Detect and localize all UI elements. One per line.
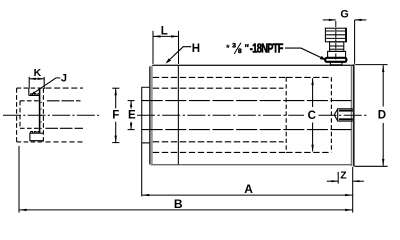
fitting flange (dark): [325, 58, 346, 62]
tapped hole outline: [337, 109, 353, 121]
svg-text:8: 8: [238, 48, 242, 55]
L arrowheads: [153, 35, 160, 37]
Z dim line right: [353, 180, 364, 182]
F arrowheads: [115, 88, 117, 95]
svg-text:J: J: [61, 72, 67, 84]
C dim line lower: [312, 123, 314, 152]
B dim line: [19, 209, 352, 211]
fitting collar: [328, 51, 346, 57]
inner hidden rect left: [19, 101, 21, 129]
E arrowheads: [130, 101, 132, 107]
E dim line lower: [130, 122, 132, 130]
L extension line left: [152, 31, 154, 64]
A arrowheads: [142, 194, 149, 196]
piston hidden rect left: [285, 77, 287, 152]
rod phantom line top: [142, 100, 353, 102]
A extension left (boss face extended): [141, 144, 143, 197]
centerline main right segment: [319, 114, 369, 116]
F dim line upper: [115, 88, 117, 108]
top notch: [29, 88, 39, 95]
boss on left face: [142, 87, 151, 143]
F tick top: [112, 87, 119, 89]
fitting top block thread lines: [326, 30, 346, 32]
between-views hidden projection lines: [3, 88, 99, 142]
outer hidden rect bottom seg: [17, 141, 44, 143]
G dim line left part: [323, 19, 336, 21]
svg-text:*: *: [226, 43, 230, 54]
rod phantom line bottom: [142, 129, 353, 131]
E dim line upper: [130, 101, 132, 109]
right face gray line: [350, 65, 352, 166]
right shared extension line: [352, 167, 354, 213]
G extension long (right face): [354, 20, 356, 64]
svg-text:E: E: [128, 110, 136, 122]
fitting top threaded block: [325, 28, 346, 42]
svg-text:Z: Z: [340, 169, 347, 181]
wire top edge of body: [152, 64, 353, 66]
svg-text:K: K: [34, 67, 42, 79]
wire bottom edge of body (gray): [151, 164, 352, 166]
leader arrowhead: [320, 56, 327, 60]
Z dim line left: [327, 180, 338, 182]
K dim line: [29, 78, 44, 80]
C dim line upper: [312, 78, 314, 107]
bottom step: [30, 133, 44, 141]
E tick bottom: [128, 129, 135, 131]
top notch thread teeth: [31, 94, 39, 96]
svg-text:G: G: [340, 9, 348, 21]
svg-text:H: H: [192, 43, 200, 55]
F dim line lower: [115, 122, 117, 143]
piston hidden rect bottom: [286, 151, 331, 153]
projection line F top: [46, 87, 84, 89]
drill cone: [334, 109, 337, 121]
L dimension line: [153, 35, 179, 37]
inner hidden rect top: [20, 100, 41, 102]
piston hidden rect right: [330, 77, 332, 152]
svg-text:L: L: [161, 25, 168, 37]
B arrowheads: [19, 209, 26, 211]
outer hidden rect right: [42, 88, 44, 142]
Z extension (hole bottom): [337, 172, 339, 184]
svg-text:3: 3: [232, 42, 236, 49]
centerline main left segment: [137, 114, 304, 116]
C arrowheads: [311, 78, 313, 85]
right face dark plate line: [353, 64, 355, 166]
fitting neck: [330, 62, 342, 65]
L extension line right: [178, 31, 180, 64]
K extension left: [28, 77, 30, 89]
svg-text:-18NPTF: -18NPTF: [250, 42, 284, 56]
K extension right: [43, 77, 45, 89]
svg-text:B: B: [174, 197, 183, 211]
G arrowheads: [329, 19, 336, 21]
inch quote: [246, 44, 248, 47]
hidden line lower (counterbore): [153, 141, 284, 143]
K arrowheads: [29, 78, 36, 80]
svg-text:A: A: [244, 182, 253, 196]
thread tick marks: [41, 103, 42, 129]
svg-text:D: D: [378, 110, 386, 122]
left face plate (gray band): [150, 66, 153, 165]
E tick top: [128, 100, 135, 102]
hidden bore line top: [153, 76, 286, 78]
A dim line: [142, 194, 353, 196]
thread thick bar top: [339, 110, 353, 112]
projection line E bottom: [46, 127, 84, 129]
F tick bottom: [112, 142, 119, 144]
centerline small part: [3, 114, 99, 116]
D extension bottom: [355, 165, 388, 167]
outer hidden rect top: [17, 87, 44, 89]
D dim line upper: [382, 65, 384, 106]
D arrowheads: [382, 65, 384, 72]
projection line E top: [47, 100, 81, 102]
leader from NPTF note: [285, 48, 324, 59]
svg-text:F: F: [112, 110, 119, 122]
left face dark edge: [149, 67, 151, 165]
bottom thread teeth: [31, 132, 40, 134]
G dim line right part: [355, 19, 367, 21]
D dim line lower: [382, 123, 384, 166]
Z arrowheads: [331, 180, 338, 182]
thread thick bar bottom: [339, 118, 353, 120]
hidden bore line bottom: [153, 151, 286, 153]
left gland vertical line: [177, 65, 179, 164]
inner hidden rect bottom: [20, 127, 41, 129]
fitting waist: [330, 42, 344, 52]
projection line F bottom: [46, 141, 84, 143]
D extension top: [355, 64, 387, 66]
outer hidden rect left: [16, 88, 18, 142]
svg-text:C: C: [308, 110, 316, 122]
long solid vertical: [39, 88, 41, 133]
piston hidden rect top: [286, 76, 331, 78]
fitting centerline (dash-dot): [335, 21, 337, 64]
hidden line upper (counterbore): [153, 87, 284, 89]
hole bottom vertical: [337, 109, 339, 121]
B extension left: [18, 146, 20, 213]
fitting top block thick right edge: [345, 28, 347, 42]
